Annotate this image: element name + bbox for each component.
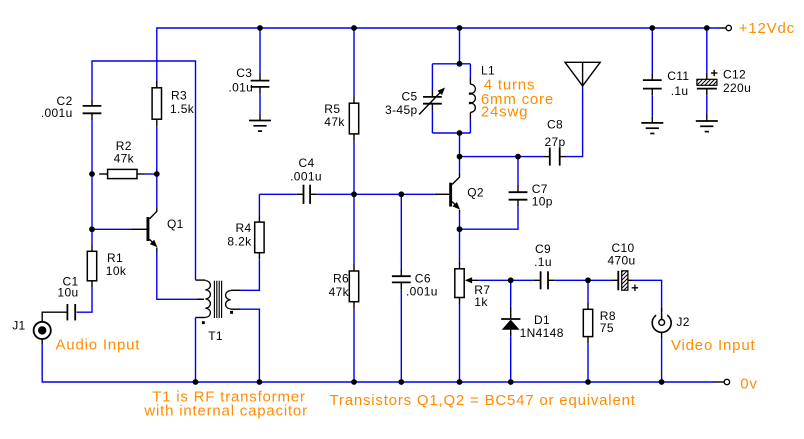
svg-text:Transistors Q1,Q2 = BC547 or e: Transistors Q1,Q2 = BC547 or equivalent bbox=[330, 392, 636, 409]
svg-text:D1: D1 bbox=[534, 313, 550, 327]
svg-text:3-45p: 3-45p bbox=[385, 103, 417, 117]
svg-text:24swg: 24swg bbox=[481, 103, 528, 120]
svg-text:470u: 470u bbox=[607, 254, 635, 268]
svg-text:R3: R3 bbox=[171, 89, 187, 103]
svg-text:R1: R1 bbox=[107, 251, 123, 265]
svg-text:C5: C5 bbox=[401, 90, 417, 104]
svg-text:.01u: .01u bbox=[228, 80, 253, 94]
svg-text:J2: J2 bbox=[676, 315, 689, 329]
svg-text:Q1: Q1 bbox=[167, 217, 184, 231]
svg-text:10u: 10u bbox=[57, 286, 78, 300]
svg-text:1.5k: 1.5k bbox=[170, 102, 195, 116]
svg-text:C9: C9 bbox=[535, 242, 551, 256]
svg-text:R5: R5 bbox=[324, 102, 340, 116]
svg-text:with internal capacitor: with internal capacitor bbox=[143, 403, 307, 420]
svg-text:.001u: .001u bbox=[41, 106, 73, 120]
svg-text:1k: 1k bbox=[474, 295, 488, 309]
svg-text:Audio Input: Audio Input bbox=[56, 336, 141, 353]
svg-text:C3: C3 bbox=[236, 66, 252, 80]
svg-text:Video Input: Video Input bbox=[671, 337, 755, 354]
svg-text:8.2k: 8.2k bbox=[227, 235, 252, 249]
svg-text:.001u: .001u bbox=[406, 285, 438, 299]
svg-text:47k: 47k bbox=[324, 115, 345, 129]
svg-text:C6: C6 bbox=[415, 272, 431, 286]
svg-text:C8: C8 bbox=[547, 118, 563, 132]
svg-text:Q2: Q2 bbox=[467, 185, 484, 199]
svg-text:J1: J1 bbox=[12, 319, 25, 333]
svg-text:.1u: .1u bbox=[671, 84, 689, 98]
svg-text:C4: C4 bbox=[298, 156, 314, 170]
svg-text:27p: 27p bbox=[544, 135, 565, 149]
svg-text:C11: C11 bbox=[667, 69, 689, 83]
svg-text:10k: 10k bbox=[106, 264, 127, 278]
svg-text:T1: T1 bbox=[208, 329, 223, 343]
svg-text:.1u: .1u bbox=[534, 255, 552, 269]
svg-text:220u: 220u bbox=[723, 81, 751, 95]
svg-text:47k: 47k bbox=[114, 152, 135, 166]
svg-text:R2: R2 bbox=[116, 139, 132, 153]
svg-text:.001u: .001u bbox=[290, 170, 322, 184]
svg-text:10p: 10p bbox=[532, 194, 553, 208]
svg-text:+12Vdc: +12Vdc bbox=[739, 20, 795, 37]
svg-text:R6: R6 bbox=[333, 272, 349, 286]
svg-text:0v: 0v bbox=[740, 376, 757, 393]
svg-text:1N4148: 1N4148 bbox=[520, 326, 564, 340]
svg-text:C12: C12 bbox=[723, 67, 746, 81]
svg-text:75: 75 bbox=[600, 321, 614, 335]
svg-text:47k: 47k bbox=[329, 285, 350, 299]
svg-text:R4: R4 bbox=[235, 221, 251, 235]
